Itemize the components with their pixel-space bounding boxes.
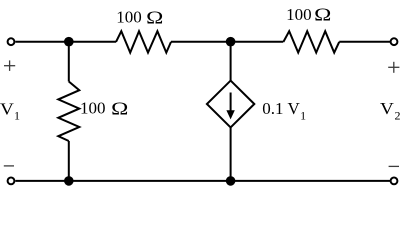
- node B (top of source): [226, 37, 236, 47]
- svg-text:Ω: Ω: [314, 5, 331, 25]
- terminal bottom-left: [8, 178, 15, 185]
- svg-text:100: 100: [286, 5, 312, 24]
- wire top-left to R1: [15, 41, 116, 43]
- svg-text:1: 1: [300, 108, 306, 122]
- node A (top of R3): [64, 37, 74, 47]
- svg-text:V: V: [380, 99, 395, 118]
- minus sign right: [389, 165, 399, 167]
- node B2 (bottom of source): [226, 176, 236, 186]
- terminal bottom-right: [391, 178, 398, 185]
- arrow of current source: [226, 93, 234, 120]
- resistor R2 100 ohm (top right): [283, 31, 339, 52]
- svg-text:100: 100: [80, 99, 106, 118]
- node A2 (bottom of R3): [64, 176, 74, 186]
- svg-text:V: V: [0, 99, 15, 118]
- terminal top-left: [8, 38, 15, 45]
- wire R1 to node B: [171, 41, 231, 43]
- svg-text:0.1 V: 0.1 V: [262, 99, 300, 118]
- plus sign right: [388, 62, 399, 73]
- plus sign left: [4, 60, 15, 71]
- dependent current source U1 (diamond): [207, 81, 254, 128]
- svg-text:2: 2: [395, 108, 401, 122]
- svg-text:100: 100: [116, 8, 142, 27]
- wire node A down to R3: [68, 42, 70, 82]
- bottom wire: [15, 180, 390, 182]
- minus sign left: [4, 165, 14, 167]
- svg-text:1: 1: [14, 108, 20, 122]
- terminal top-right: [391, 38, 398, 45]
- wire R3 to bottom node: [68, 141, 70, 181]
- svg-text:Ω: Ω: [111, 99, 128, 119]
- resistor R3 100 ohm (vertical shunt): [58, 82, 79, 142]
- wire node B down to source: [230, 42, 232, 81]
- wire source to bottom node: [230, 127, 232, 180]
- resistor R1 100 ohm (top left): [116, 31, 171, 52]
- wire node B to R2: [231, 41, 284, 43]
- svg-text:Ω: Ω: [146, 7, 163, 27]
- wire R2 to terminal top-right: [339, 41, 390, 43]
